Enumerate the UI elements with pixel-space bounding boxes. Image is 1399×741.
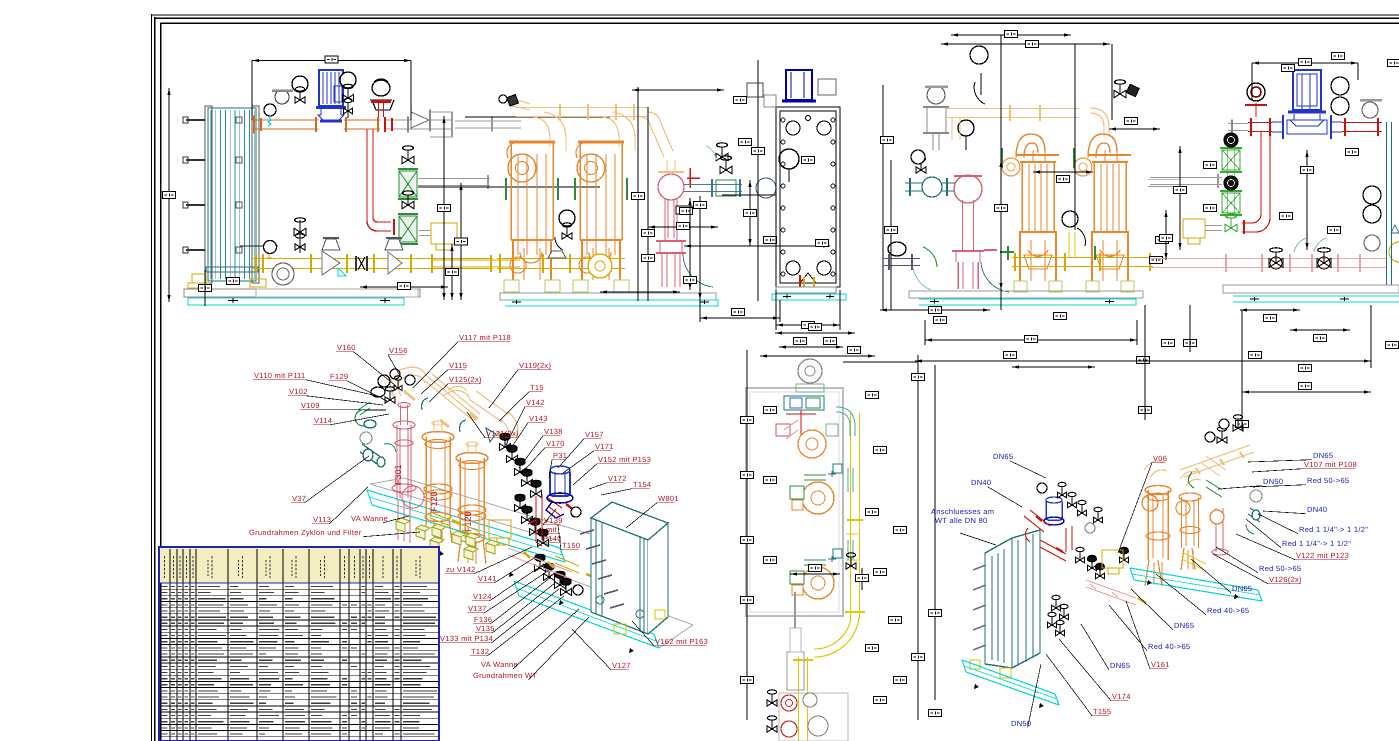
iso G tray under HX	[962, 660, 1059, 708]
svg-text:V162 mit P163: V162 mit P163	[655, 637, 708, 646]
svg-text:V171: V171	[595, 442, 614, 451]
svg-text:V152 mit P153: V152 mit P153	[598, 455, 651, 464]
feet cubes on tray1	[396, 518, 500, 560]
green control valves	[398, 146, 418, 199]
gauge near vessel view D	[958, 120, 974, 136]
view C: plate heat exchanger front view with pump	[684, 70, 847, 330]
view B: cyclone/filter skid elevation	[497, 60, 830, 306]
svg-text:V37: V37	[292, 494, 306, 503]
plan yellow main pipe	[793, 413, 865, 741]
view C dims	[684, 97, 841, 331]
svg-text:VA Wanne: VA Wanne	[351, 514, 388, 523]
vessel F120 b	[456, 442, 488, 564]
iso G extra valves near tray	[1088, 547, 1129, 579]
svg-text:V102: V102	[289, 387, 308, 396]
salmon transfer pipes iso	[508, 548, 596, 579]
svg-text:Grundrahmen WT: Grundrahmen WT	[473, 671, 537, 680]
red discharge piping view E	[1228, 124, 1248, 131]
view D dimensions	[880, 31, 1371, 369]
svg-text:VA Wanne: VA Wanne	[481, 660, 518, 669]
plan teal small pipes	[836, 407, 856, 569]
iso G blue pump	[1044, 497, 1064, 525]
gold suction pipe view B	[497, 251, 625, 278]
svg-text:V138: V138	[544, 427, 563, 436]
svg-text:F136: F136	[474, 615, 492, 624]
VA Wanne tray 1 (cyan)	[367, 478, 590, 577]
iso G salmon pipe run	[1086, 580, 1136, 605]
svg-text:V113: V113	[313, 515, 331, 524]
tan top piping iso	[391, 367, 518, 442]
svg-text:V170: V170	[546, 439, 565, 448]
plan bottom filter tank	[787, 592, 804, 690]
svg-text:Red 1 1/4"-> 1 1/2": Red 1 1/4"-> 1 1/2"	[1282, 539, 1351, 548]
tan top header view D	[946, 46, 1139, 140]
svg-text:T154: T154	[633, 480, 651, 489]
svg-text:Red 40->65: Red 40->65	[1148, 642, 1190, 651]
iso G black valves top	[1037, 482, 1103, 636]
svg-text:W801: W801	[658, 494, 679, 503]
parts list table	[159, 547, 439, 741]
svg-text:V133 mit P134: V133 mit P134	[440, 634, 493, 643]
svg-text:mit: mit	[546, 525, 558, 534]
plan outline	[746, 388, 843, 616]
svg-text:V127: V127	[612, 661, 631, 670]
svg-text:V141: V141	[478, 574, 497, 583]
svg-text:DN40: DN40	[1307, 505, 1327, 514]
svg-text:V121(2x): V121(2x)	[486, 429, 519, 438]
view A: plate heat exchanger skid, left elevation	[163, 56, 611, 306]
plate heat exchanger W801 side view	[183, 106, 266, 288]
svg-text:P31: P31	[553, 451, 567, 460]
base frame	[184, 289, 420, 305]
svg-text:T132: T132	[471, 647, 489, 656]
iso G heat exchanger	[970, 530, 1040, 678]
svg-text:V161: V161	[1151, 660, 1170, 669]
svg-text:Red 1 1/4"-> 1 1/2": Red 1 1/4"-> 1 1/2"	[1299, 525, 1368, 534]
iso G right skid cyclones	[1142, 461, 1201, 586]
small fittings view B	[716, 153, 728, 161]
plan pump unit	[790, 464, 842, 514]
svg-text:V172: V172	[608, 474, 627, 483]
svg-text:V126(2x): V126(2x)	[1269, 575, 1302, 584]
iso G yellow box	[1102, 550, 1123, 568]
svg-text:V122 mit P123: V122 mit P123	[1296, 551, 1349, 560]
iso G labels	[931, 451, 1368, 728]
black valve left low view D	[884, 242, 937, 290]
tan top header pipe view B	[499, 95, 673, 157]
teal valve assembly	[684, 149, 799, 198]
plan dims	[741, 338, 919, 721]
upper orange pipe	[252, 116, 380, 134]
svg-text:Grundrahmen Zyklon und Filter: Grundrahmen Zyklon und Filter	[249, 528, 362, 537]
plan pump motor circle top	[798, 359, 822, 383]
yellow actuator box	[431, 223, 457, 244]
svg-text:V124: V124	[473, 592, 492, 601]
ball gauges iso	[571, 507, 581, 517]
svg-text:T15: T15	[530, 383, 544, 392]
gauge view B	[559, 210, 575, 226]
svg-text:V137: V137	[468, 604, 487, 613]
grey pipe right view D	[1148, 180, 1180, 187]
plan bottom pump circles	[767, 690, 848, 741]
svg-text:V156: V156	[389, 346, 408, 355]
pink separator vessel view D	[952, 175, 1009, 292]
heat exchanger W801 iso	[580, 502, 668, 634]
svg-text:zu V142: zu V142	[446, 565, 476, 574]
vessel F120 a	[422, 421, 454, 543]
svg-text:DN40: DN40	[971, 478, 991, 487]
pressure gauges	[264, 72, 356, 126]
svg-text:V142: V142	[526, 398, 545, 407]
pump with blue motor	[316, 70, 346, 121]
svg-text:V107 mit P108: V107 mit P108	[1304, 460, 1357, 469]
HX feet and base	[772, 287, 846, 300]
salmon suction pipe view E	[1150, 238, 1386, 272]
cyclone vessel 4	[1074, 134, 1134, 292]
iso view F: cyclone/filter and WT skid isometric	[355, 0, 835, 653]
iso G tan top pipe diagonal	[1180, 415, 1254, 497]
iso G red piping	[1024, 510, 1072, 561]
cyclone vessel 1	[504, 112, 566, 292]
grey pipe + yellow box view E	[1150, 174, 1237, 244]
svg-text:F120: F120	[463, 511, 473, 532]
green valve stack view E	[1220, 133, 1242, 218]
cyclone vessel 2	[573, 112, 635, 292]
svg-text:F129: F129	[330, 372, 348, 381]
gauges right view E	[1331, 77, 1399, 262]
svg-text:DN65: DN65	[993, 452, 1013, 461]
pink separator vessel	[656, 160, 713, 287]
svg-text:F301: F301	[393, 464, 403, 485]
teal valve pair left iso	[360, 432, 396, 467]
VA Wanne tray 2 (cyan)	[514, 0, 835, 653]
iso G teal valve right	[1246, 490, 1262, 534]
view A dimensions	[163, 56, 611, 306]
svg-text:DN65: DN65	[1174, 621, 1194, 630]
svg-text:V174: V174	[1112, 692, 1131, 701]
svg-text:Red 40->65: Red 40->65	[1207, 606, 1249, 615]
svg-text:Red 50->65: Red 50->65	[1307, 476, 1349, 485]
lower gold pipe	[253, 254, 497, 273]
view D: cyclone skid elevation 2	[880, 31, 1371, 369]
vessel F301 (red)	[392, 403, 424, 543]
svg-text:V110 mit P111: V110 mit P111	[254, 371, 305, 380]
iso G yellow pipe + tray	[1130, 552, 1262, 601]
svg-text:V157: V157	[585, 430, 604, 439]
svg-text:V115: V115	[449, 361, 467, 370]
pump P31 (blue) iso	[546, 466, 574, 518]
gold pipe extension	[497, 260, 520, 267]
plan view H: skid top view	[741, 338, 919, 741]
iso F labels	[249, 333, 708, 680]
upper pipe right segment	[370, 79, 521, 137]
view B dimensions	[600, 60, 830, 301]
grey stub pipe	[418, 179, 490, 186]
iso G pink riser + orange gauge	[1210, 508, 1228, 555]
svg-text:V143: V143	[529, 414, 548, 423]
svg-text:F120: F120	[429, 491, 439, 512]
extra mid-band dimensions	[700, 300, 1371, 428]
svg-text:Red 50->65: Red 50->65	[1259, 564, 1301, 573]
cyclone vessel 3	[1002, 134, 1062, 292]
gold pipe view D	[1000, 211, 1153, 271]
svg-text:V135: V135	[476, 624, 495, 633]
lower pipe valves and strainer	[240, 218, 403, 285]
red gauge valve	[1245, 83, 1267, 117]
HX body front	[776, 107, 840, 287]
svg-text:Anschluesses am: Anschluesses am	[931, 507, 994, 516]
valve cluster top left iso	[355, 369, 402, 428]
grey filter + teal valve left	[905, 86, 955, 197]
svg-text:V119(2x): V119(2x)	[519, 361, 551, 370]
base view D	[909, 291, 1143, 305]
plan pump unit	[790, 549, 842, 599]
pump on HX top	[747, 70, 836, 107]
svg-text:V125(2x): V125(2x)	[449, 375, 482, 384]
svg-text:DN65: DN65	[1232, 584, 1252, 593]
svg-text:DN65: DN65	[1110, 661, 1130, 670]
blue pump view E	[1272, 70, 1342, 139]
svg-text:V114: V114	[314, 416, 332, 425]
plan top manifold cluster	[776, 396, 838, 458]
svg-text:T155: T155	[1093, 707, 1111, 716]
svg-text:V109: V109	[301, 401, 320, 410]
base frame view B	[500, 293, 718, 306]
teal column right edge	[1387, 122, 1392, 285]
valve chain center iso	[500, 433, 582, 595]
gold boxes on skid1	[430, 512, 511, 545]
svg-text:V160: V160	[337, 343, 356, 352]
svg-text:DN50: DN50	[1263, 477, 1283, 486]
svg-text:T150: T150	[562, 541, 580, 550]
red riser pipe	[367, 129, 394, 235]
view E: pump group elevation right	[1150, 53, 1399, 349]
svg-text:WT alle DN 80: WT alle DN 80	[935, 516, 988, 525]
red pipe drop iso	[528, 494, 542, 546]
svg-text:V117 mit P118: V117 mit P118	[459, 333, 511, 342]
svg-text:V06: V06	[1153, 454, 1167, 463]
iso view G: WT connection isometric	[962, 415, 1262, 708]
long dimension chains	[912, 305, 1372, 720]
view E dimensions	[1160, 53, 1399, 349]
svg-text:DN65: DN65	[1313, 451, 1333, 460]
base view E	[1223, 285, 1399, 302]
